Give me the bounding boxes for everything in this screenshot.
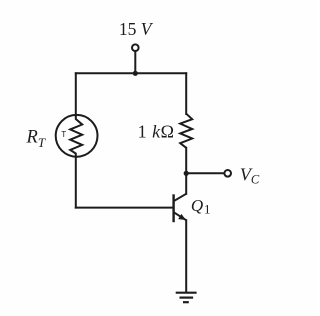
Q1 emitter lead [174,212,187,220]
terminal VC [224,170,231,177]
svg-text:15 V: 15 V [119,19,154,39]
thermistor RT [56,115,98,157]
resistor 1k zigzag [180,114,192,148]
wire right upper [185,73,187,114]
svg-text:Q1: Q1 [191,196,211,216]
svg-text:VC: VC [240,165,260,187]
Q1 emitter arrow [178,214,186,220]
svg-text:1 kΩ: 1 kΩ [138,122,175,142]
wire left lower [75,157,77,208]
wire base [76,207,173,209]
Q1 collector lead [174,194,187,201]
Q1 base bar [172,194,174,222]
wire top rail [76,72,186,74]
wire VC stub [186,172,224,174]
node top junction [133,71,138,76]
wire 15V stub [134,52,136,74]
ground [176,293,197,303]
node VC junction [184,171,189,176]
transistor Q1 [174,194,187,222]
svg-text:T: T [61,130,66,139]
wire left upper [75,73,77,115]
terminal 15V [132,44,139,51]
svg-text:RT: RT [26,128,46,150]
wire emitter lower [185,220,187,292]
wire collector [185,148,187,194]
